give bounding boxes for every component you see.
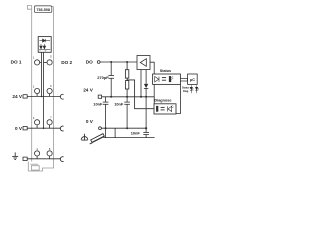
svg-text:µC: µC <box>190 77 195 82</box>
svg-text:10nF: 10nF <box>114 102 124 107</box>
svg-text:10nF: 10nF <box>131 130 141 135</box>
svg-text:DO 2: DO 2 <box>61 60 72 65</box>
svg-text:Diag.: Diag. <box>183 90 189 93</box>
svg-text:24 V: 24 V <box>12 94 23 99</box>
svg-text:Diagnose: Diagnose <box>154 98 171 102</box>
svg-text:753-508: 753-508 <box>36 8 50 12</box>
svg-text:0 V: 0 V <box>86 119 94 124</box>
svg-text:DO 1: DO 1 <box>11 59 22 64</box>
svg-text:10nF: 10nF <box>93 102 103 107</box>
svg-text:270pF: 270pF <box>97 75 109 80</box>
svg-text:24 V: 24 V <box>83 88 94 93</box>
svg-text:DO: DO <box>86 60 93 65</box>
svg-text:Status: Status <box>160 69 171 73</box>
svg-text:0 V: 0 V <box>15 126 23 131</box>
